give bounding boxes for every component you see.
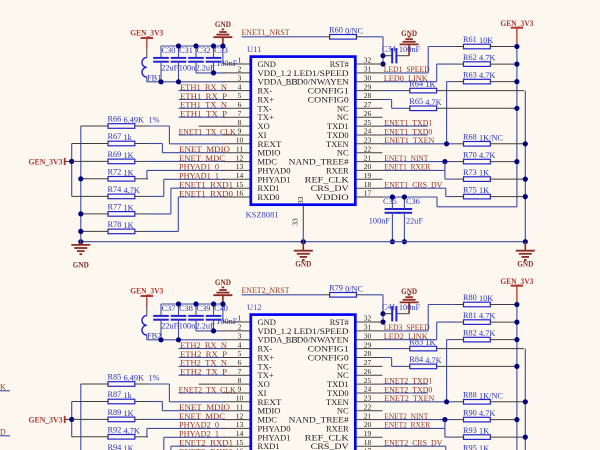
wire R lead — [135, 230, 148, 232]
svg-text:22: 22 — [364, 144, 372, 153]
svg-text:23: 23 — [364, 136, 372, 145]
wire TXEN — [383, 401, 456, 403]
ground — [213, 19, 232, 46]
svg-text:U12: U12 — [247, 302, 262, 312]
svg-text:R66: R66 — [108, 115, 122, 124]
wire RXER — [383, 169, 445, 171]
pin 4 RX- — [224, 340, 273, 353]
pin 29 CONFIG1 — [308, 340, 383, 353]
wire to RST vertical — [362, 36, 383, 38]
wire R lead — [72, 143, 108, 145]
junction — [193, 43, 198, 48]
pin 25 TXD1 — [327, 118, 383, 131]
svg-text:4.7K: 4.7K — [124, 186, 140, 195]
resistor R63 — [463, 70, 495, 84]
svg-text:27: 27 — [364, 100, 372, 109]
svg-text:11: 11 — [236, 144, 243, 153]
wire NINT — [383, 419, 456, 421]
wire left 3V3 rail — [71, 144, 73, 197]
pin 28 CONFIG0 — [308, 91, 383, 104]
wire VDDIO to 3V3 rail — [437, 206, 517, 208]
wire R lead — [72, 418, 108, 420]
svg-text:30: 30 — [364, 331, 372, 340]
wire cap top lead — [178, 46, 180, 58]
pin 16 RXD0 — [224, 447, 280, 450]
wire TXD0 — [383, 134, 429, 136]
pin 11 MDIO — [224, 144, 281, 157]
wire bend vertical — [163, 179, 165, 196]
junction — [442, 159, 447, 164]
wire — [179, 392, 225, 394]
wire jog down — [391, 358, 393, 367]
svg-text:5: 5 — [238, 91, 242, 100]
svg-text:ENET2_NRST: ENET2_NRST — [242, 286, 290, 295]
pin 5 RX+ — [224, 349, 275, 362]
svg-text:1K: 1K — [124, 444, 134, 450]
power GEN_3V3 — [500, 276, 533, 286]
wire pin8 stub — [199, 125, 225, 127]
svg-text:R72: R72 — [108, 168, 122, 177]
wire to R73 — [445, 178, 455, 180]
resistor R88 — [463, 391, 503, 405]
wire cap top lead — [195, 304, 197, 316]
svg-text:RXD1: RXD1 — [258, 441, 280, 450]
wire R lead — [455, 401, 464, 403]
svg-text:R80: R80 — [463, 293, 477, 302]
junction — [514, 106, 519, 111]
wire cap bottom lead — [160, 320, 162, 340]
resistor R70 — [463, 150, 495, 164]
svg-text:GND: GND — [215, 277, 231, 287]
wire to bend — [148, 125, 169, 127]
wire R63 to TXEN strap — [446, 340, 448, 402]
wire left GND rail — [80, 126, 82, 242]
wire to pin12 — [148, 418, 225, 420]
svg-text:R64: R64 — [409, 79, 424, 88]
junction — [514, 159, 519, 164]
wire bend vertical — [168, 126, 170, 144]
junction — [523, 141, 528, 146]
svg-text:GEN_3V3: GEN_3V3 — [500, 276, 533, 286]
wire CONFIG1 — [383, 348, 406, 350]
wire to pin — [147, 427, 225, 429]
pin 6 TX- — [224, 358, 272, 371]
wire bend vertical — [146, 428, 148, 436]
junction — [390, 194, 395, 199]
pin 1 GND — [224, 314, 276, 327]
svg-text:19: 19 — [364, 429, 372, 438]
wire cap bottom lead — [195, 320, 197, 331]
pin 31 LED1/SPEED — [294, 323, 383, 336]
wire R lead — [455, 196, 464, 198]
wire to pin — [162, 410, 224, 412]
ground — [400, 286, 419, 314]
pin 5 RX+ — [224, 91, 275, 104]
svg-text:1%: 1% — [149, 116, 160, 125]
svg-text:4.7K: 4.7K — [425, 98, 441, 107]
wire R lead — [72, 401, 108, 403]
pin 12 MDC — [224, 411, 278, 424]
wire — [437, 321, 455, 323]
wire to pin — [147, 169, 225, 171]
svg-text:22uF: 22uF — [406, 216, 423, 225]
svg-text:33: 33 — [296, 196, 305, 204]
wire bend vertical — [161, 402, 163, 411]
svg-text:3: 3 — [238, 331, 242, 340]
svg-text:GEN_3V3: GEN_3V3 — [29, 157, 63, 167]
power GEN_3V3 — [29, 157, 65, 167]
wire NINT strap down — [444, 162, 446, 180]
junction — [176, 337, 181, 342]
pin 24 TXD0 — [327, 127, 383, 140]
resistor R72 — [108, 168, 135, 182]
wire cap bottom lead — [178, 320, 180, 340]
wire — [382, 321, 385, 323]
wire cap top lead — [178, 304, 180, 316]
svg-text:10K: 10K — [479, 294, 493, 303]
svg-text:C30: C30 — [162, 46, 176, 55]
svg-text:25: 25 — [364, 118, 372, 127]
pin 9 XI — [224, 127, 267, 140]
svg-text:1%: 1% — [149, 374, 160, 383]
ground — [71, 242, 90, 270]
pin 13 PHYAD0 — [224, 420, 291, 433]
wire R lead — [490, 81, 515, 83]
wire LED0 net — [383, 339, 437, 341]
svg-text:100nF: 100nF — [369, 216, 391, 225]
svg-text:C38: C38 — [179, 304, 193, 313]
svg-text:14: 14 — [236, 429, 244, 438]
wire R lead — [490, 63, 515, 65]
wire to bend — [148, 383, 169, 385]
svg-text:18: 18 — [364, 180, 372, 189]
svg-text:4.7K: 4.7K — [479, 71, 495, 80]
wire R lead — [135, 178, 148, 180]
resistor R67 — [108, 132, 135, 146]
junction — [444, 399, 449, 404]
pin 2 VDD_1.2 — [224, 65, 292, 78]
svg-text:30: 30 — [364, 73, 372, 82]
svg-text:1K/NC: 1K/NC — [479, 133, 503, 142]
resistor R75 — [463, 185, 490, 199]
junction — [176, 43, 181, 48]
svg-text:4.7K: 4.7K — [479, 409, 495, 418]
resistor R78 — [108, 220, 135, 234]
svg-text:27: 27 — [364, 358, 372, 367]
wire port to rail — [65, 160, 72, 162]
svg-text:4: 4 — [238, 82, 242, 91]
resistor R61 — [463, 35, 493, 49]
svg-text:11: 11 — [236, 402, 243, 411]
pin 16 RXD0 — [224, 189, 280, 202]
capacitor C41 — [382, 303, 421, 322]
junction — [69, 417, 74, 422]
wire to pin1 — [223, 321, 225, 323]
svg-text:29: 29 — [364, 82, 372, 91]
resistor R81 — [463, 311, 495, 325]
wire — [179, 365, 225, 367]
wire C lead — [396, 313, 409, 315]
svg-text:21: 21 — [364, 411, 372, 420]
wire cap bottom lead — [160, 62, 162, 82]
svg-text:26: 26 — [364, 109, 372, 118]
junction — [390, 239, 395, 244]
svg-text:1K: 1K — [425, 80, 435, 89]
svg-text:0/NC: 0/NC — [345, 26, 363, 35]
svg-text:10: 10 — [236, 136, 244, 145]
svg-text:R81: R81 — [463, 311, 477, 320]
svg-text:1K: 1K — [425, 338, 435, 347]
wire — [382, 63, 385, 65]
wire TXEN — [383, 143, 456, 145]
power GEN_3V3 — [500, 18, 533, 28]
junction — [514, 62, 519, 67]
wire R lead — [72, 160, 108, 162]
wire RXER — [383, 427, 445, 429]
svg-text:GND: GND — [517, 259, 533, 269]
wire cap top lead — [213, 304, 215, 316]
wire GND rail down to pin1 — [222, 304, 224, 322]
svg-text:12: 12 — [236, 411, 244, 420]
junction — [158, 337, 163, 342]
svg-text:GND: GND — [401, 28, 417, 38]
wire to pin1 — [223, 63, 225, 65]
pin 12 MDC — [224, 153, 278, 166]
svg-text:1K: 1K — [479, 169, 489, 178]
svg-text:C41: C41 — [382, 303, 396, 312]
wire R lead — [81, 383, 108, 385]
pin 21 NAND_TREE# — [289, 153, 383, 166]
wire bend vertical — [170, 446, 172, 450]
wire R lead — [437, 107, 515, 109]
wire GEN_3V3 rail right — [516, 305, 518, 450]
svg-text:R63: R63 — [463, 70, 477, 79]
junction — [78, 176, 83, 181]
wire to bend — [148, 213, 171, 215]
resistor R79 — [329, 284, 363, 298]
svg-text:1k: 1k — [124, 133, 133, 142]
wire cap bottom lead — [391, 213, 393, 242]
svg-text:8: 8 — [238, 376, 242, 385]
wire — [447, 81, 455, 83]
wire to R65 — [392, 107, 405, 109]
wire bend vertical — [168, 384, 170, 402]
junction — [78, 239, 83, 244]
wire power stub — [516, 28, 518, 47]
wire CONFIG1 — [383, 90, 406, 92]
wire R lead — [455, 46, 464, 48]
svg-text:9: 9 — [238, 127, 242, 136]
resistor R69 — [108, 150, 135, 164]
svg-text:28: 28 — [364, 349, 372, 358]
svg-text:R77: R77 — [108, 203, 122, 212]
wire cap top lead — [160, 304, 162, 316]
wire R lead — [490, 401, 523, 403]
junction — [402, 239, 407, 244]
wire to bend — [147, 436, 148, 438]
wire TXD0 — [383, 392, 429, 394]
svg-text:3: 3 — [238, 73, 242, 82]
pin 25 TXD1 — [327, 376, 383, 389]
pin 6 TX- — [224, 100, 272, 113]
resistor R95 — [463, 443, 490, 450]
wire R lead — [81, 178, 108, 180]
svg-text:1K: 1K — [479, 444, 489, 450]
junction — [514, 302, 519, 307]
wire R lead — [135, 125, 148, 127]
pin 19 REF_CLK — [305, 171, 383, 184]
wire CRS_DV — [383, 445, 446, 447]
junction — [211, 328, 216, 333]
svg-text:1: 1 — [238, 314, 242, 323]
pin 4 RX- — [224, 82, 273, 95]
svg-text:R74: R74 — [108, 185, 123, 194]
wire pad to GND rail — [302, 230, 304, 242]
wire R lead — [455, 304, 464, 306]
wire to pin — [162, 152, 224, 154]
wire R lead — [356, 36, 362, 38]
wire VDD_1.2 to pin2 — [196, 72, 225, 74]
wire R lead — [490, 436, 523, 438]
pin 20 RXER — [326, 420, 382, 433]
junction — [176, 301, 181, 306]
svg-text:R83: R83 — [409, 337, 423, 346]
wire to bend — [147, 178, 148, 180]
wire R lead — [455, 436, 464, 438]
svg-text:6: 6 — [238, 358, 242, 367]
wire VDDA rail to pin3 — [147, 339, 225, 341]
wire cap top lead — [160, 46, 162, 58]
svg-text:R85: R85 — [108, 373, 122, 382]
wire R lead — [455, 81, 464, 83]
pin 23 TXEN — [326, 394, 382, 407]
wire cap top lead — [213, 46, 215, 58]
svg-text:R65: R65 — [409, 97, 423, 106]
junction — [211, 43, 216, 48]
wire R lead — [81, 230, 108, 232]
resistor R89 — [108, 408, 135, 422]
svg-text:R75: R75 — [463, 185, 477, 194]
capacitor C35 — [383, 197, 400, 213]
svg-text:21: 21 — [364, 153, 372, 162]
power GEN_3V3 — [130, 285, 163, 296]
wire CRS_DV — [383, 187, 446, 189]
wire R lead — [490, 178, 523, 180]
svg-text:C31: C31 — [179, 46, 193, 55]
junction — [523, 239, 528, 244]
junction — [380, 61, 385, 66]
svg-text:5: 5 — [238, 349, 242, 358]
pin 19 REF_CLK — [305, 429, 383, 442]
svg-text:18: 18 — [364, 438, 372, 447]
wire — [179, 90, 225, 92]
wire TXD1 — [383, 125, 429, 127]
svg-text:6.49K: 6.49K — [124, 374, 145, 383]
wire R lead — [135, 195, 148, 197]
junction — [176, 79, 181, 84]
wire R lead — [135, 160, 148, 162]
wire R lead — [455, 143, 464, 145]
wire R lead — [135, 213, 148, 215]
wire NINT — [383, 161, 456, 163]
capacitor C38 — [171, 304, 196, 330]
svg-text:R88: R88 — [463, 391, 477, 400]
wire R lead — [437, 348, 524, 350]
wire down to R75 — [445, 446, 447, 450]
wire — [447, 339, 455, 341]
wire — [428, 46, 455, 48]
svg-text:24: 24 — [364, 385, 372, 394]
svg-text:R69: R69 — [108, 150, 122, 159]
wire power stub — [146, 296, 148, 307]
svg-text:100n: 100n — [179, 321, 196, 330]
junction — [523, 399, 528, 404]
wire cap top rail (GND) — [161, 303, 223, 305]
pin 18 CRS_DV — [311, 438, 383, 450]
wire up to R62 — [436, 322, 438, 340]
junction — [514, 320, 519, 325]
wire R lead — [405, 365, 410, 367]
pin 15 RXD1 — [224, 438, 280, 450]
svg-text:1K: 1K — [479, 427, 489, 436]
svg-text:C35: C35 — [383, 197, 397, 206]
wire R lead — [455, 419, 464, 421]
capacitor C33 — [206, 46, 228, 62]
IC U11 KSZ8081 — [224, 44, 383, 230]
svg-text:29: 29 — [364, 340, 372, 349]
wire GEN_3V3 rail right — [516, 47, 518, 207]
wire — [179, 107, 225, 109]
svg-text:R94: R94 — [108, 443, 123, 450]
svg-text:16: 16 — [236, 189, 244, 198]
svg-text:12: 12 — [236, 153, 244, 162]
wire cap top lead — [403, 197, 405, 209]
wire R lead — [490, 321, 515, 323]
svg-text:17: 17 — [364, 189, 372, 198]
pin 17 VDDIO — [316, 189, 383, 202]
wire power stub — [146, 38, 148, 49]
wire FB to rail — [146, 335, 148, 340]
wire R lead — [490, 339, 515, 341]
wire to bend — [148, 195, 164, 197]
svg-text:4: 4 — [238, 340, 242, 349]
svg-text:R87: R87 — [108, 390, 122, 399]
pin 10 REXT — [224, 136, 283, 149]
power GEN_3V3 — [130, 27, 163, 38]
wire C lead — [383, 55, 392, 57]
svg-text:26: 26 — [364, 367, 372, 376]
wire R lead — [490, 46, 515, 48]
junction — [380, 311, 385, 316]
resistor R93 — [463, 426, 490, 440]
wire R lead — [135, 383, 148, 385]
resistor R80 — [463, 293, 493, 307]
wire to R73 — [445, 436, 455, 438]
wire FB to rail — [146, 77, 148, 82]
svg-text:R70: R70 — [463, 150, 477, 159]
power GEN_3V3 — [29, 415, 65, 425]
wire bend vertical — [146, 170, 148, 178]
junction — [514, 337, 519, 342]
svg-text:1K: 1K — [124, 409, 134, 418]
wire cap top rail (GND) — [161, 45, 223, 47]
wire CONFIG0 — [383, 99, 392, 101]
svg-text:R90: R90 — [463, 408, 477, 417]
wire — [179, 134, 225, 136]
svg-text:7: 7 — [238, 109, 242, 118]
wire to pin — [169, 401, 224, 403]
svg-text:28: 28 — [364, 91, 372, 100]
